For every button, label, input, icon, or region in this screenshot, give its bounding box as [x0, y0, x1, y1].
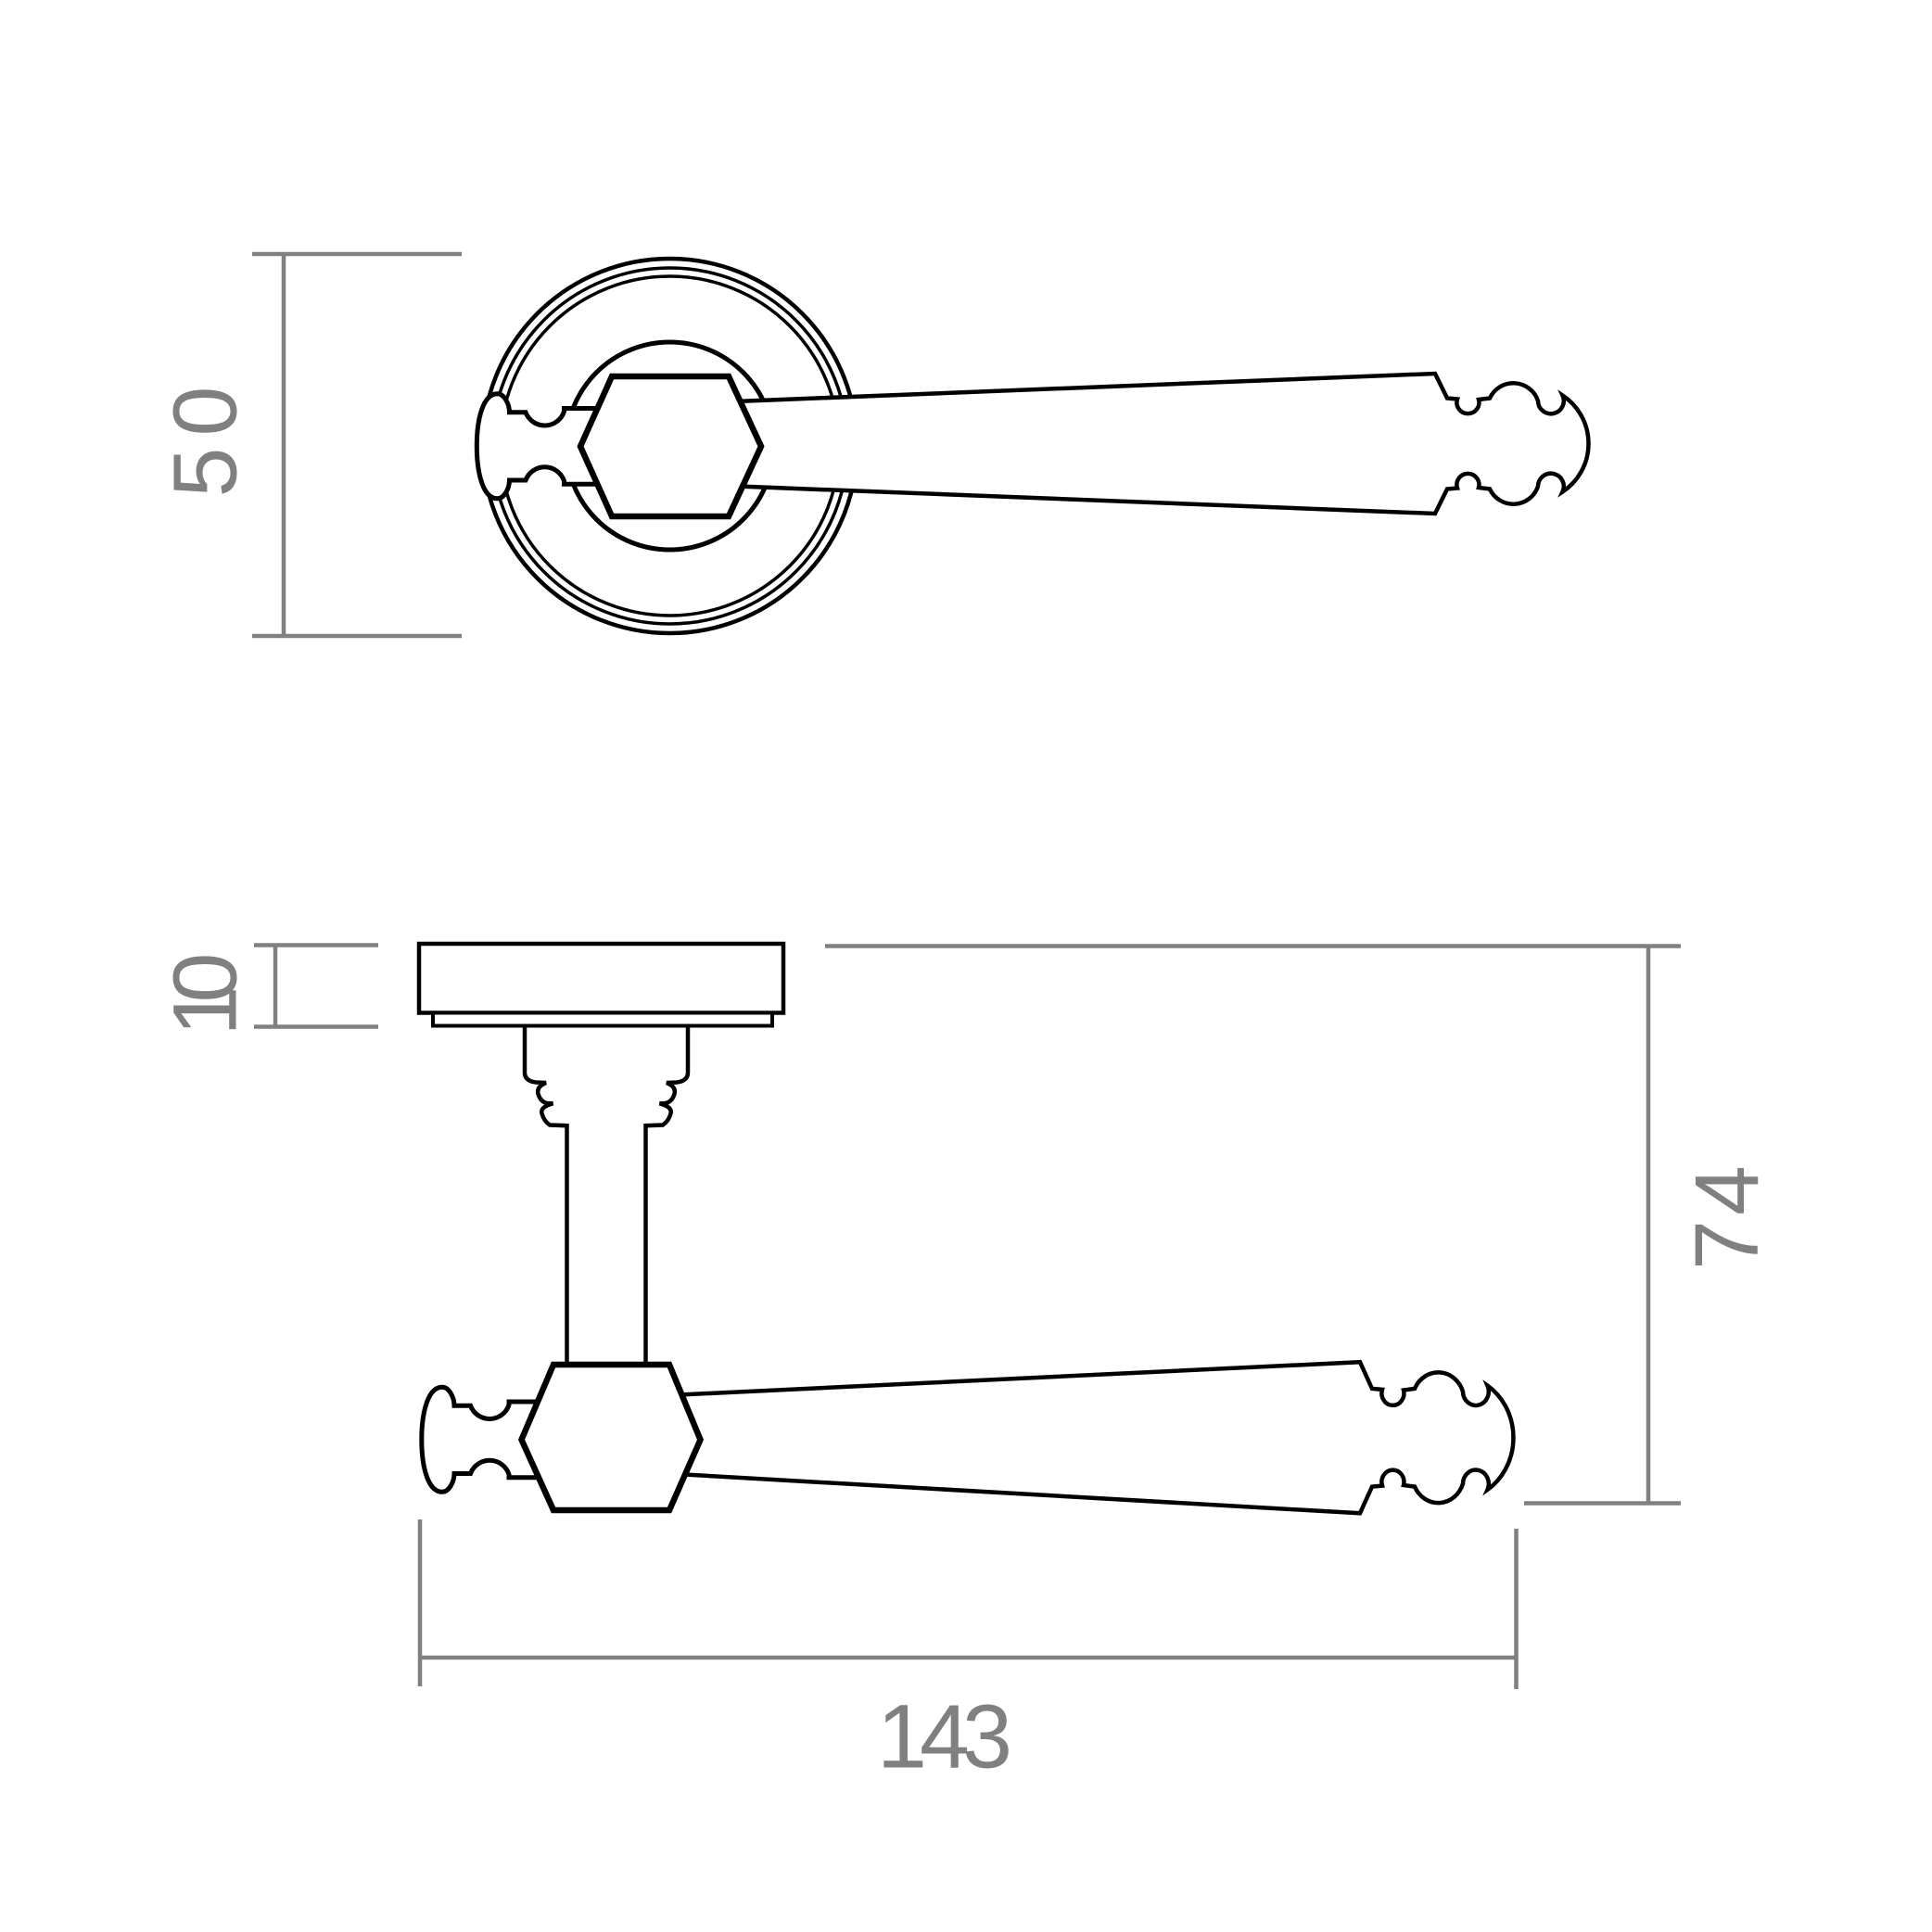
- top view: hex nut: [580, 376, 761, 516]
- side view: knob: [422, 1387, 555, 1492]
- svg-text:10: 10: [155, 953, 256, 1036]
- side view: lever with tip: [680, 1362, 1513, 1513]
- dim 50 extension ticks and line: [252, 252, 462, 257]
- dim 143 extension ticks and line: [418, 1519, 423, 1686]
- side view: rose plate: [419, 944, 783, 1013]
- side view: stem collar and shaft: [525, 1025, 688, 1366]
- side view: hex body: [522, 1365, 701, 1510]
- dim 74 extension ticks and line: [825, 944, 1681, 948]
- top view: rose circles: [483, 259, 858, 633]
- side view: rose lip: [433, 1013, 772, 1026]
- top view: lever with tip: [721, 374, 1588, 514]
- svg-text:143: 143: [877, 1686, 1012, 1787]
- top view: neck knob: [477, 394, 610, 499]
- dim 10 extension ticks and line: [254, 943, 378, 947]
